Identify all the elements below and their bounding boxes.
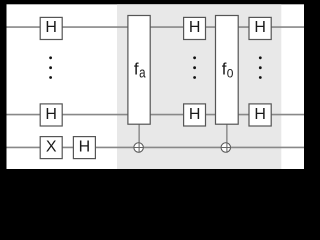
svg-text:H: H [254, 106, 266, 123]
svg-text:H: H [45, 19, 57, 36]
svg-text:0: 0 [227, 66, 234, 80]
svg-text:f: f [134, 59, 139, 78]
svg-text:X: X [46, 139, 57, 156]
svg-text:H: H [79, 139, 91, 156]
svg-text:a: a [139, 64, 146, 81]
svg-text:H: H [254, 19, 266, 36]
svg-text:H: H [45, 106, 57, 123]
svg-text:H: H [189, 19, 201, 36]
svg-text:H: H [189, 106, 201, 123]
